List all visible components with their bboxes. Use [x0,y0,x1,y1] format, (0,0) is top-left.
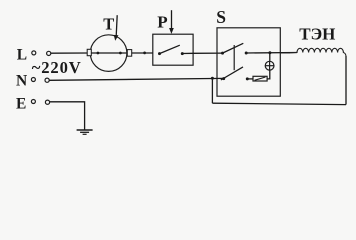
lamp junction dot [268,51,271,54]
resistor R [253,76,267,81]
P box [153,34,193,65]
wire junction down [211,78,213,103]
thermostat T body circle [90,35,127,72]
P push arrow [171,10,173,29]
svg-text:E: E [16,95,26,112]
T contact dot right [119,52,122,55]
wire L to thermostat T [51,52,88,54]
svg-text:L: L [17,46,27,63]
svg-text:P: P [157,12,167,31]
E wire [50,102,85,130]
terminal E b [45,100,49,104]
S bottom switch blade [221,67,243,80]
terminal N b [45,78,49,82]
heater coil [290,48,346,56]
wire P to S [193,52,222,54]
S bottom switch right contact [246,77,249,80]
P switch right contact [181,52,184,55]
svg-text:ТЭН: ТЭН [299,24,335,43]
svg-text:~220V: ~220V [32,58,82,77]
S bottom switch left contact [222,77,225,80]
P switch left contact [158,52,161,55]
N wire to S bottom switch [49,78,224,80]
S top switch left contact [221,52,224,55]
wire S top switch to heater [246,52,297,55]
terminal L a [32,51,36,55]
svg-text:N: N [16,72,27,89]
mechanical link line [233,45,235,70]
junction dot N [211,77,214,80]
wire through T [91,52,127,54]
wire resistor to bottom switch contact [247,78,253,80]
junction dot [143,52,146,55]
terminal L b [47,51,51,55]
wire T to P with junction dot [132,52,153,54]
S top switch blade [223,43,244,53]
T right terminal square [127,50,131,57]
wire S box edge to coil start [280,52,290,54]
svg-text:S: S [216,7,226,27]
bottom return wire [212,103,346,104]
terminal E a [31,100,35,104]
wire junction down to lamp [269,53,271,62]
terminal N a [31,78,35,82]
ground symbol [77,129,93,131]
right vertical wire [345,56,347,105]
wire P contact to box edge [182,52,193,54]
P switch blade [160,45,180,53]
indicator lamp HL [265,61,274,70]
T contact dot left [97,52,100,55]
S top switch right contact [245,52,248,55]
S box [217,28,280,96]
T left terminal square [87,49,91,55]
wire lamp down to resistor corner [267,70,270,79]
T adjust arrow [116,15,117,36]
svg-text:T: T [103,15,114,34]
